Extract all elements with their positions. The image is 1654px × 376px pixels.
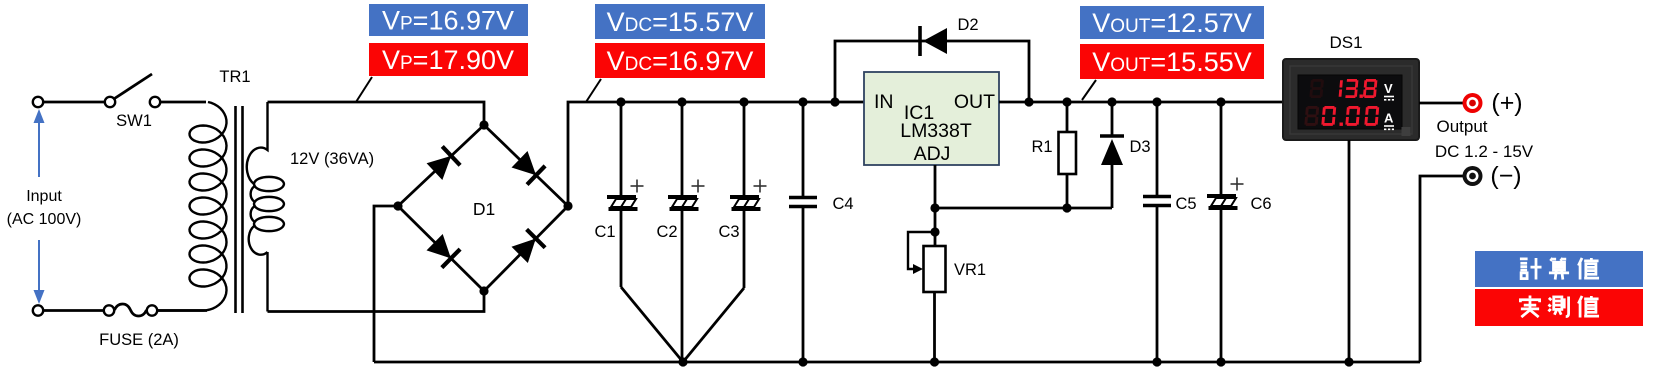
node junction C5	[1152, 97, 1161, 106]
input terminal top	[33, 97, 43, 107]
wire	[935, 207, 1112, 210]
svg-text:TR1: TR1	[219, 68, 250, 86]
wire	[374, 206, 398, 362]
node junction ADJ	[930, 203, 939, 212]
diode D3	[1100, 102, 1151, 208]
wire	[158, 309, 208, 312]
node junction C3	[739, 97, 748, 106]
svg-text:(AC 100V): (AC 100V)	[7, 211, 82, 228]
capacitor C6	[1207, 102, 1272, 362]
wire	[161, 101, 207, 104]
svg-text:Input: Input	[26, 188, 62, 205]
ground bus wire	[374, 361, 1420, 364]
node junction bus VR1	[930, 357, 939, 366]
label box VP measured	[369, 43, 528, 76]
core	[234, 106, 237, 313]
node junction wiper	[930, 227, 939, 236]
node junction R1 bottom	[1062, 203, 1071, 212]
capacitor C3	[683, 102, 767, 362]
svg-text:DS1: DS1	[1329, 33, 1362, 52]
regulator IC1 LM338T	[864, 72, 999, 165]
potentiometer VR1	[908, 232, 986, 362]
wire DS1 bottom	[1348, 140, 1351, 362]
fuse FUSE(2A)	[99, 304, 179, 349]
node junction bus C6	[1216, 357, 1225, 366]
leader line VOUT	[1082, 80, 1096, 100]
node junction C2	[677, 97, 686, 106]
secondary winding	[247, 102, 268, 184]
wire	[568, 102, 864, 206]
wire	[44, 101, 105, 104]
node junction D3	[1107, 97, 1116, 106]
wire	[268, 102, 485, 125]
svg-text:VR1: VR1	[954, 261, 986, 279]
leader line VDC	[586, 79, 601, 102]
wire DS1 to plus terminal	[1419, 102, 1463, 105]
label Input (AC 100V)	[7, 188, 82, 228]
meter digits	[1304, 79, 1394, 129]
wire	[268, 291, 485, 312]
resistor R1	[1031, 102, 1076, 208]
diode D2	[920, 16, 979, 56]
svg-text:C4: C4	[832, 195, 853, 213]
node junction bus DS1	[1344, 357, 1353, 366]
input terminal bottom	[33, 305, 43, 315]
transformer TR1	[157, 68, 284, 313]
svg-text:C6: C6	[1250, 195, 1271, 213]
primary winding	[157, 102, 227, 311]
node junction R1	[1062, 97, 1071, 106]
svg-text:C5: C5	[1175, 195, 1196, 213]
input AC arrow	[34, 109, 45, 304]
leader line VP	[356, 77, 372, 102]
node junction D2 left	[830, 97, 839, 106]
switch SW1	[105, 74, 160, 130]
svg-text:V: V	[1384, 81, 1393, 96]
wire minus terminal	[1420, 176, 1463, 362]
node junction bus C5	[1152, 357, 1161, 366]
legend calculated box	[1475, 251, 1643, 287]
label box VOUT measured	[1080, 44, 1264, 79]
wire ADJ net	[934, 165, 937, 246]
capacitor C4	[789, 102, 854, 362]
svg-text:DC 1.2 - 15V: DC 1.2 - 15V	[1435, 142, 1534, 161]
node junction C4	[798, 97, 807, 106]
terminal minus	[1463, 166, 1483, 186]
svg-text:IN: IN	[874, 91, 894, 113]
svg-text:12V (36VA): 12V (36VA)	[290, 150, 374, 168]
svg-text:D2: D2	[957, 16, 978, 34]
label box VP calculated	[369, 4, 528, 36]
diode D2 bypass wire	[835, 41, 1029, 102]
svg-text:(−): (−)	[1490, 162, 1521, 190]
svg-text:(+): (+)	[1491, 89, 1522, 117]
capacitor C1	[594, 102, 683, 362]
label box VDC calculated	[595, 4, 765, 39]
svg-text:D1: D1	[473, 199, 495, 219]
svg-text:C2: C2	[656, 223, 677, 241]
label box VDC measured	[595, 43, 765, 78]
node junction bus C123	[678, 357, 687, 366]
svg-text:LM338T: LM338T	[900, 120, 972, 142]
node junction bus C4	[798, 357, 807, 366]
label box VOUT calculated	[1080, 6, 1264, 39]
svg-text:R1: R1	[1031, 138, 1052, 156]
svg-text:OUT: OUT	[954, 91, 995, 113]
svg-text:A: A	[1384, 111, 1394, 126]
svg-text:D3: D3	[1129, 138, 1150, 156]
bridge rectifier D1	[393, 120, 572, 295]
wire	[44, 309, 104, 312]
node junction C1	[616, 97, 625, 106]
node junction C6	[1216, 97, 1225, 106]
wire OUT rail	[999, 101, 1284, 104]
svg-text:C1: C1	[594, 223, 615, 241]
terminal plus	[1463, 93, 1483, 113]
svg-text:FUSE (2A): FUSE (2A)	[99, 331, 179, 349]
capacitor C5	[1143, 102, 1197, 362]
svg-text:Output: Output	[1436, 117, 1487, 136]
legend measured box	[1475, 289, 1643, 326]
node junction D2 right	[1024, 97, 1033, 106]
svg-text:SW1: SW1	[116, 112, 152, 130]
svg-text:ADJ: ADJ	[914, 143, 951, 165]
svg-text:C3: C3	[718, 223, 739, 241]
capacitor C2	[656, 102, 704, 362]
meter DS1	[1283, 33, 1419, 140]
